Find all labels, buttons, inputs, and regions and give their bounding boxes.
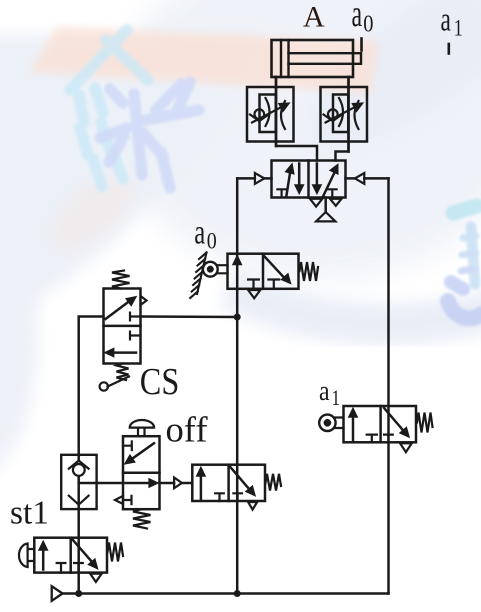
valve a1 spring — [417, 413, 433, 433]
check valve — [61, 455, 96, 509]
relay valve right box arrow — [230, 467, 255, 496]
node dot st1/supply — [75, 590, 82, 597]
valve st1 right box T — [74, 563, 83, 573]
valve a0 left box T — [248, 280, 259, 289]
flow control valve FC2 (right) — [321, 77, 368, 152]
node dot mid/supply — [234, 590, 241, 597]
valve CS lever and roller — [100, 377, 129, 391]
valve st1 left box arrow — [39, 541, 47, 569]
valve a1 right box T — [384, 435, 393, 443]
valve CS top box T — [130, 313, 141, 321]
5/2 valve U1 body — [272, 161, 346, 198]
5/2 valve U1 exhaust triangle right — [330, 199, 342, 206]
valve a1 left box T — [367, 435, 377, 443]
valve CS body — [104, 289, 141, 364]
valve st1 spring — [108, 543, 124, 562]
relay valve exhaust triangle — [248, 502, 257, 510]
valve st1 right box arrow — [73, 540, 98, 569]
tick a0 position — [360, 39, 363, 51]
flow control valve FC1 (left) — [247, 77, 294, 146]
watermark swoosh top-left wedge — [0, 35, 265, 335]
relay valve body — [192, 465, 265, 501]
relay valve left box arrow — [197, 467, 205, 499]
svg-text:A: A — [303, 1, 325, 34]
wire: CS left line down x=78.7 — [79, 317, 104, 462]
junction node (237,317) — [234, 314, 241, 321]
relay valve left box T — [215, 493, 224, 501]
wire: off valve to relay pilot — [160, 482, 175, 485]
valve CS top exhaust triangle — [141, 296, 147, 305]
valve off bottom spring — [133, 509, 151, 528]
valve CS top box arrow — [106, 297, 137, 319]
relay valve spring — [266, 474, 282, 491]
tick a1 position — [447, 44, 450, 54]
valve a0 exhaust triangle — [248, 290, 260, 298]
valve CS bottom spring — [117, 364, 129, 381]
valve off push button — [130, 420, 154, 436]
svg-text:0: 0 — [207, 229, 217, 254]
svg-text:a: a — [319, 376, 330, 407]
5/2 valve U1 right box internals — [313, 164, 338, 198]
wire: check valve to off valve — [79, 482, 123, 485]
valve a0 mount hatching — [190, 253, 206, 299]
watermark swoosh top-right band — [280, 0, 481, 182]
5/2 valve U1 left box internals — [277, 164, 303, 198]
valve CS bottom box arrow — [105, 349, 136, 357]
wire: cylinder right port to 5/2 port 2 — [336, 77, 349, 161]
valve off top box T — [123, 442, 132, 451]
valve off bottom box arrow — [126, 479, 158, 487]
svg-text:a: a — [194, 212, 205, 251]
5/2 valve U1 left pilot triangle — [255, 173, 264, 184]
relay valve right box T — [233, 493, 242, 501]
valve a1 roller — [319, 415, 343, 431]
valve a0 right box arrow — [265, 257, 291, 284]
wire: mid vertical line x=237 (5/2 left pilot to bottom supply) — [236, 178, 239, 593]
pressure source triangle — [52, 586, 63, 601]
5/2 valve U1 right pilot triangle — [355, 173, 364, 184]
valve st1 body — [34, 538, 107, 573]
wire: bottom supply line — [63, 592, 389, 595]
svg-text:0: 0 — [363, 11, 373, 37]
svg-text:1: 1 — [332, 385, 341, 410]
watermark glyph tai (cyan) — [70, 30, 148, 187]
svg-text:CS: CS — [140, 361, 180, 403]
wire: right vertical line x=388.5 (5/2 right pilot to bottom supply) — [387, 178, 390, 593]
valve off bottom box T — [123, 496, 132, 504]
valve a1 body — [344, 406, 417, 442]
svg-text:off: off — [166, 410, 208, 450]
valve off body — [123, 436, 160, 509]
5/2 valve U1 exhaust triangle left — [310, 199, 322, 207]
watermark glyph mi (lavender) — [100, 82, 199, 188]
relay valve pilot triangle — [174, 478, 182, 489]
watermark broad top tint — [110, 0, 481, 280]
watermark glyph right edge — [448, 206, 481, 318]
valve a0 up arrow on line — [233, 256, 241, 265]
svg-text:1: 1 — [454, 16, 463, 41]
valve off bottom exhaust triangle — [115, 496, 123, 504]
wire: cylinder left port to 5/2 port 4 — [276, 77, 317, 161]
watermark swoosh mid-right band — [228, 288, 481, 324]
cylinder A body — [272, 40, 354, 77]
valve CS bottom box T — [130, 332, 141, 340]
watermark pink band — [30, 27, 378, 264]
svg-text:st1: st1 — [10, 495, 49, 532]
valve a1 right box arrow — [384, 408, 409, 437]
valve a0 spring — [300, 262, 319, 281]
svg-text:a: a — [352, 0, 363, 35]
cylinder piston — [280, 40, 282, 77]
valve st1 exhaust triangle — [90, 574, 102, 582]
watermark left edge tint — [0, 200, 38, 480]
valve CS top spring — [112, 271, 130, 289]
wire: 5/2 right pilot stubs — [346, 177, 355, 180]
valve a1 exhaust triangle — [400, 443, 412, 452]
wire: 5/2 left pilot stubs — [237, 177, 255, 180]
valve a0 right box T — [268, 280, 279, 289]
cylinder rod — [289, 53, 362, 64]
svg-text:a: a — [441, 1, 451, 38]
wire: CS output to junction — [141, 315, 238, 318]
valve st1 left box T — [57, 563, 66, 573]
valve a0 roller — [203, 262, 228, 277]
valve a1 left box arrow — [349, 408, 357, 440]
5/2 valve U1 supply triangle — [316, 212, 335, 221]
valve a0 body — [228, 254, 299, 289]
valve st1 push button — [19, 544, 34, 568]
wire: 5/2 supply stub — [324, 198, 327, 213]
valve off top box arrow — [125, 443, 154, 464]
